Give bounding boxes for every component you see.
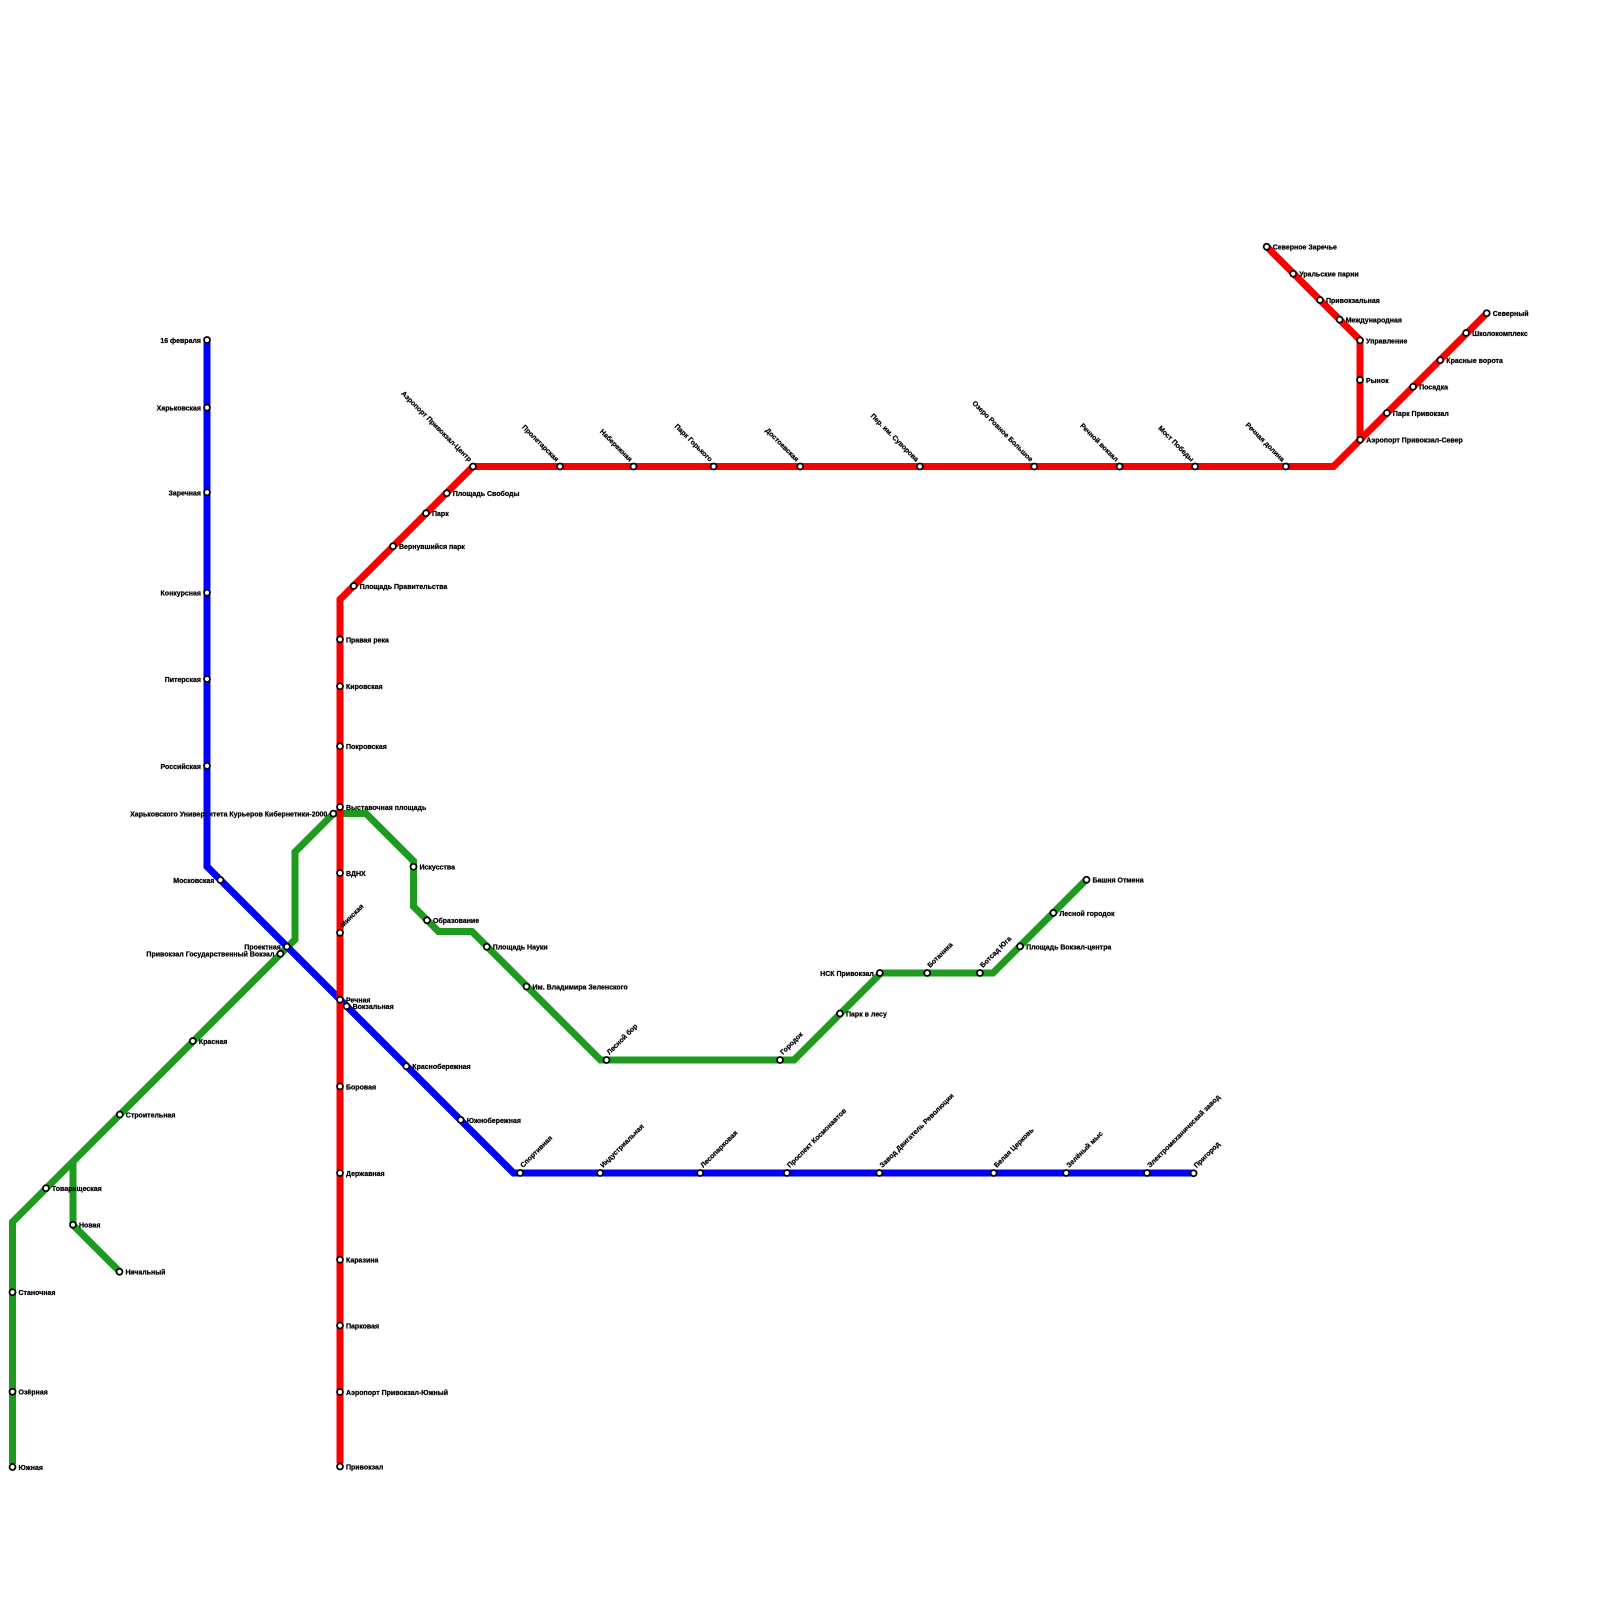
svg-text:Южнобережная: Южнобережная	[467, 1117, 521, 1125]
svg-text:Привокзал: Привокзал	[346, 1464, 383, 1471]
svg-text:Начальный: Начальный	[126, 1269, 166, 1277]
svg-text:Краснобережная: Краснобережная	[412, 1063, 470, 1071]
svg-text:Питерская: Питерская	[165, 677, 201, 684]
svg-text:Каразина: Каразина	[346, 1258, 379, 1265]
svg-text:Международная: Международная	[1346, 318, 1402, 325]
svg-text:16 февраля: 16 февраля	[160, 338, 201, 345]
svg-text:Станочная: Станочная	[19, 1290, 56, 1297]
svg-text:Образование: Образование	[433, 917, 479, 925]
svg-text:Парк в лесу: Парк в лесу	[846, 1011, 887, 1018]
svg-text:Аэропорт Привокзал-Южный: Аэропорт Привокзал-Южный	[346, 1389, 448, 1397]
svg-text:Парковая: Парковая	[346, 1323, 379, 1330]
svg-text:Красные ворота: Красные ворота	[1446, 358, 1503, 365]
svg-text:Аэропорт Привокзал-Север: Аэропорт Привокзал-Север	[1366, 438, 1463, 445]
svg-text:Южная: Южная	[19, 1465, 43, 1472]
svg-text:Новая: Новая	[79, 1223, 101, 1230]
svg-text:Вокзальная: Вокзальная	[353, 1004, 394, 1011]
svg-text:Искусства: Искусства	[420, 865, 456, 872]
svg-text:Кировская: Кировская	[346, 684, 383, 691]
svg-text:Конкурсная: Конкурсная	[161, 591, 201, 598]
svg-text:Площадь Свободы: Площадь Свободы	[453, 490, 520, 498]
svg-text:Северное Заречье: Северное Заречье	[1273, 245, 1337, 252]
svg-text:Боровая: Боровая	[346, 1084, 376, 1091]
svg-text:Правая река: Правая река	[346, 637, 389, 644]
svg-text:Северный: Северный	[1493, 310, 1529, 318]
svg-text:Российская: Российская	[161, 763, 201, 771]
svg-text:Посадка: Посадка	[1419, 385, 1448, 392]
svg-text:Проектная: Проектная	[244, 945, 281, 952]
svg-text:Лесной городок: Лесной городок	[1059, 910, 1115, 918]
svg-text:ВДНХ: ВДНХ	[346, 871, 366, 878]
svg-text:Привокзальная: Привокзальная	[1326, 298, 1380, 305]
svg-text:Озёрная: Озёрная	[19, 1390, 48, 1397]
svg-text:Парк Привокзал: Парк Привокзал	[1393, 411, 1449, 418]
svg-text:Строительная: Строительная	[126, 1112, 176, 1119]
svg-text:Парк: Парк	[432, 511, 449, 518]
svg-text:Харьковская: Харьковская	[157, 406, 201, 413]
svg-text:Привокзал Государственный Вокз: Привокзал Государственный Вокзал	[146, 951, 274, 959]
svg-text:Красная: Красная	[199, 1039, 228, 1046]
svg-text:Покровская: Покровская	[346, 744, 387, 751]
svg-text:Площадь Вокзал-центра: Площадь Вокзал-центра	[1026, 944, 1111, 951]
svg-text:Им. Владимира Зеленского: Им. Владимира Зеленского	[533, 984, 628, 991]
svg-text:Вернувшийся парк: Вернувшийся парк	[399, 543, 465, 551]
svg-text:Товарищеская: Товарищеская	[52, 1186, 102, 1193]
svg-text:Башня Отмена: Башня Отмена	[1093, 878, 1144, 885]
svg-text:Площадь Правительства: Площадь Правительства	[360, 584, 448, 591]
svg-text:Харьковского Университета Курь: Харьковского Университета Курьеров Кибер…	[130, 811, 327, 819]
svg-text:Выставочная площадь: Выставочная площадь	[346, 805, 427, 812]
svg-text:НСК Привокзал: НСК Привокзал	[820, 971, 874, 978]
svg-text:Державная: Державная	[346, 1171, 385, 1178]
svg-text:Заречная: Заречная	[168, 490, 201, 497]
svg-text:Площадь Науки: Площадь Науки	[493, 945, 548, 952]
svg-text:Управление: Управление	[1366, 338, 1407, 345]
svg-text:Школокомплекс: Школокомплекс	[1472, 331, 1528, 338]
svg-text:Уральские парни: Уральские парни	[1299, 272, 1358, 279]
svg-text:Московская: Московская	[173, 878, 214, 885]
svg-text:Рынок: Рынок	[1366, 378, 1389, 385]
